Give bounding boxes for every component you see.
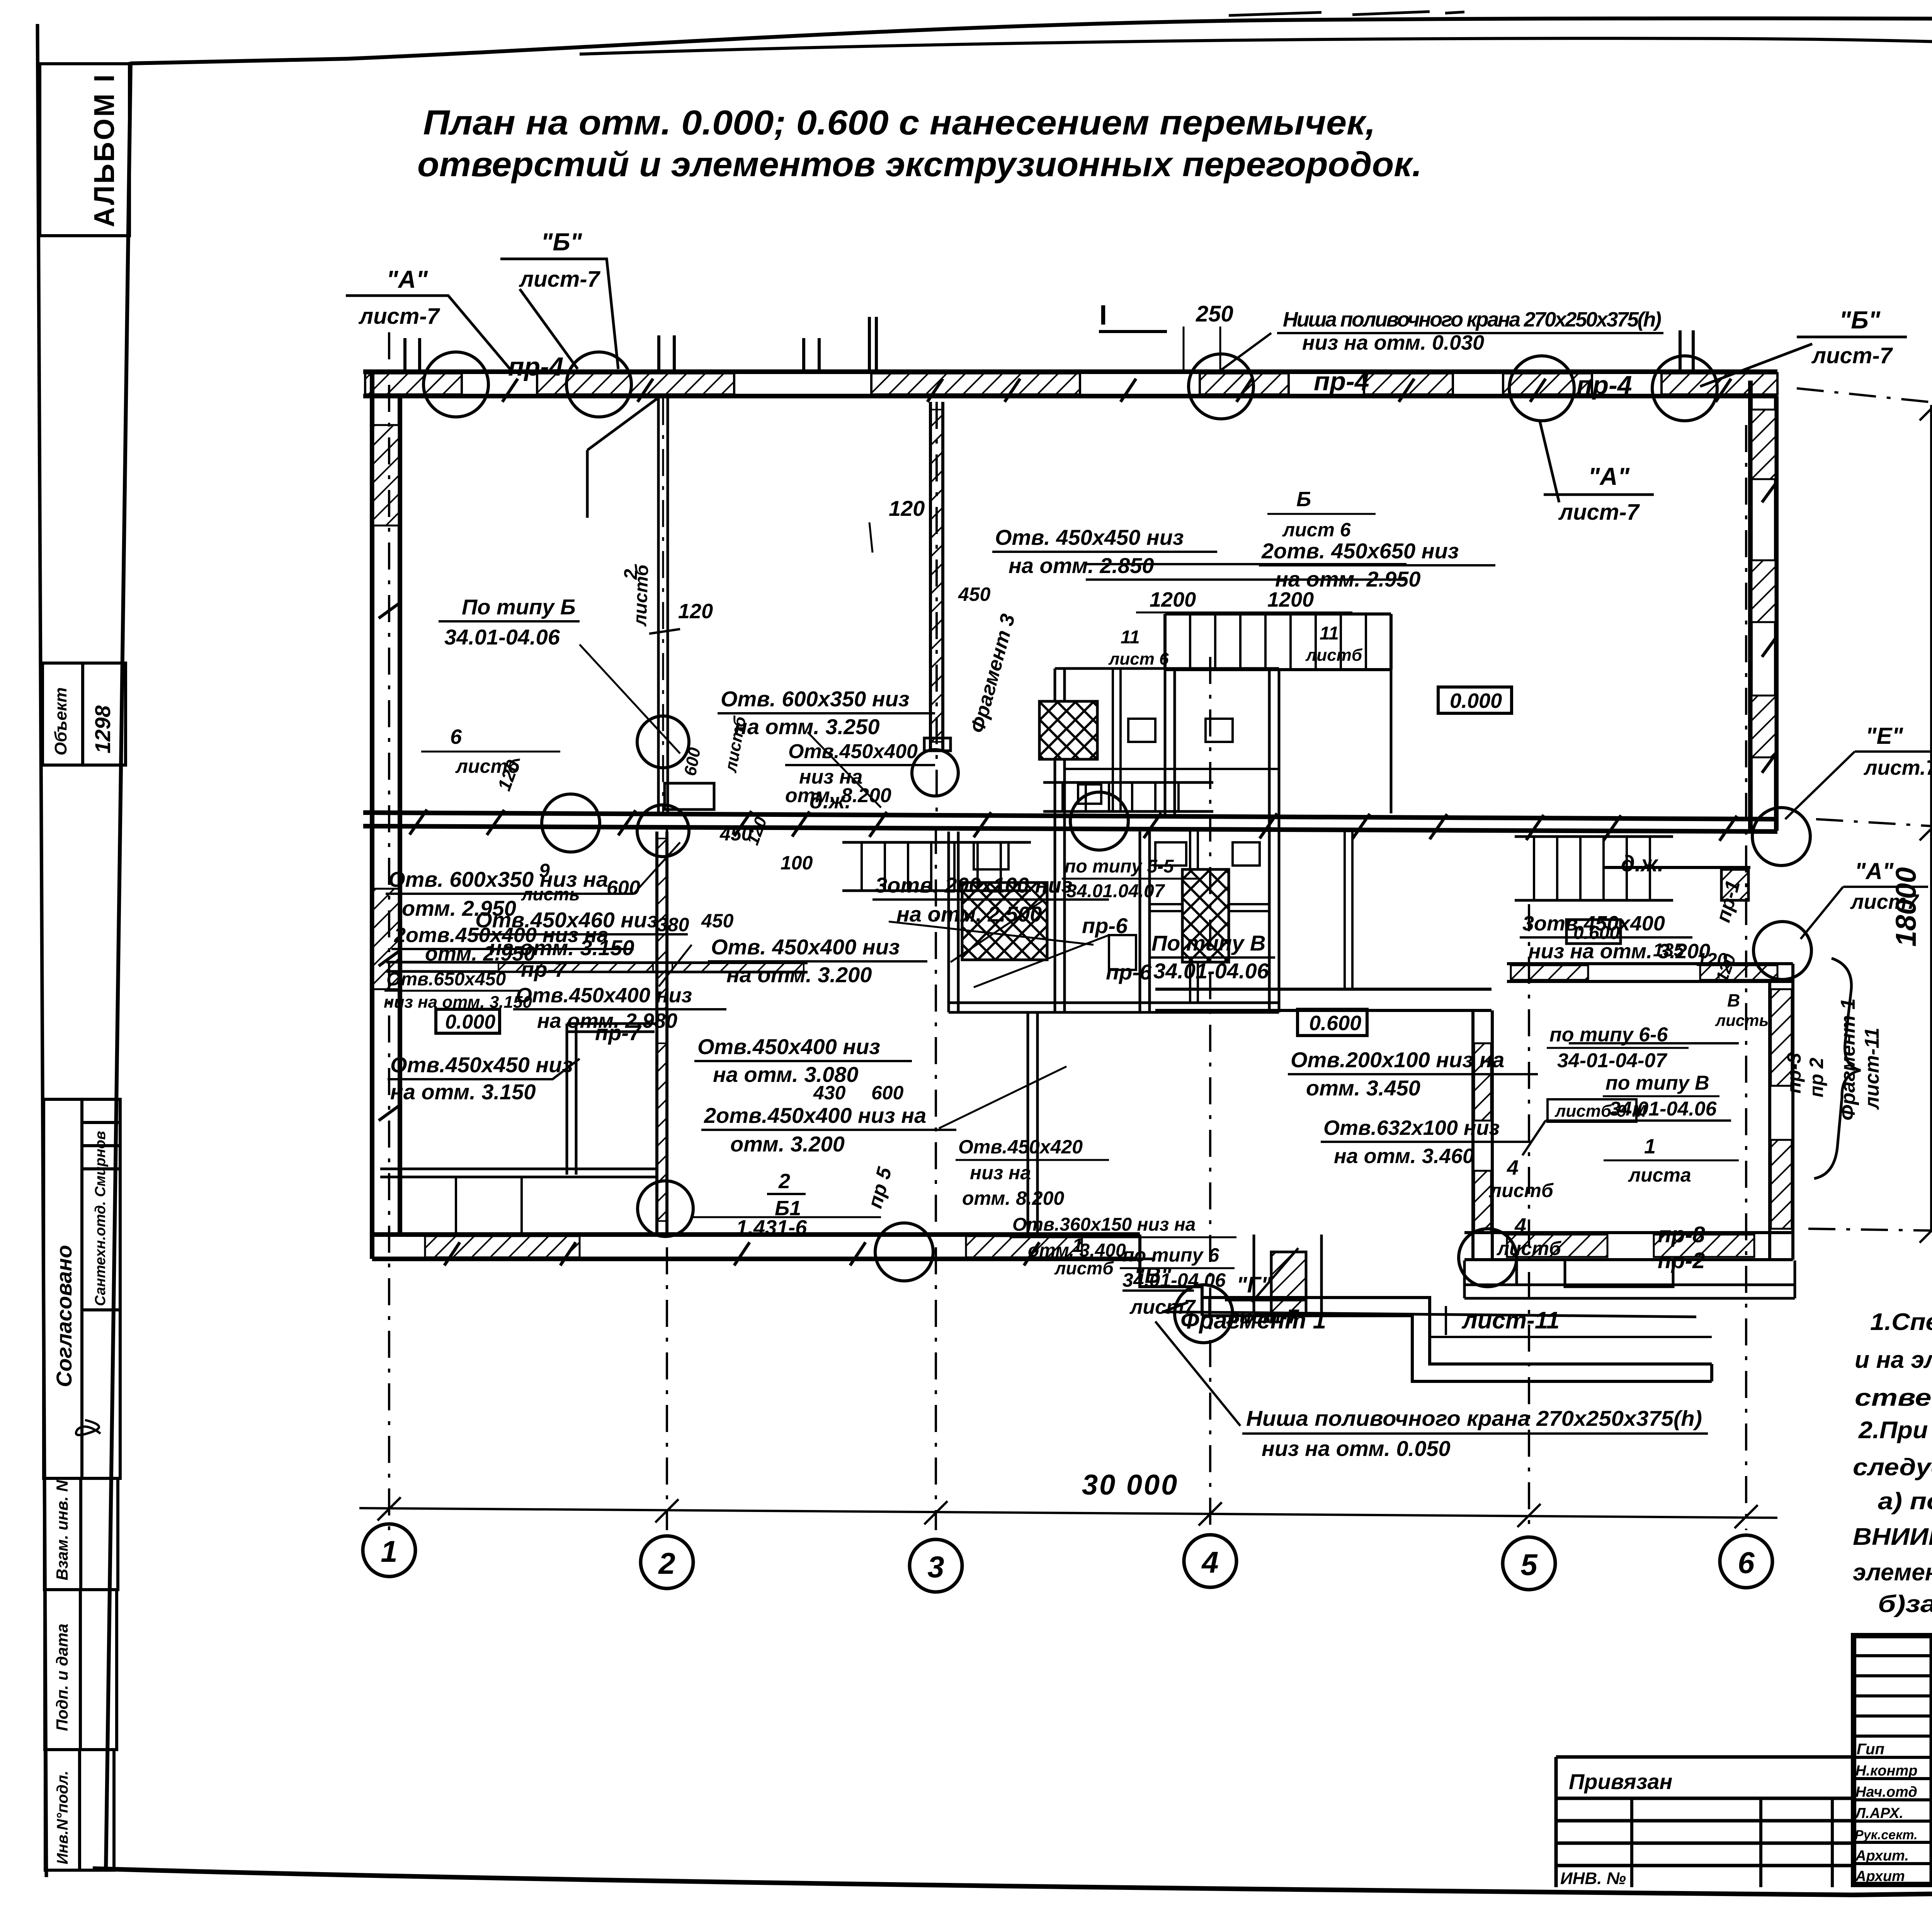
svg-text:листь: листь xyxy=(1715,1011,1769,1029)
svg-text:Отв.450х420: Отв.450х420 xyxy=(958,1136,1083,1158)
svg-text:отм. 8.200: отм. 8.200 xyxy=(962,1187,1064,1209)
svg-text:листа: листа xyxy=(1628,1164,1691,1186)
svg-text:4: 4 xyxy=(1507,1156,1519,1179)
svg-text:листб-9-М: листб-9-М xyxy=(1554,1102,1647,1121)
album box xyxy=(40,64,129,236)
svg-text:листб: листб xyxy=(1305,646,1363,665)
svg-text:пр-4: пр-4 xyxy=(508,352,564,381)
leaders cluster center xyxy=(889,900,1109,1128)
svg-text:Ниша поливочного крана 270х250: Ниша поливочного крана 270х250х375(h) xyxy=(1246,1406,1702,1430)
svg-text:Н.контр: Н.контр xyxy=(1855,1763,1917,1779)
svg-text:низ на: низ на xyxy=(970,1162,1031,1184)
svg-text:"А": "А" xyxy=(1588,463,1630,490)
gutter box at wall2 junction xyxy=(665,783,714,810)
svg-text:лист 6: лист 6 xyxy=(1282,519,1351,541)
svg-text:лист-7: лист-7 xyxy=(519,267,601,292)
svg-text:пр-4: пр-4 xyxy=(1577,371,1632,400)
crosshatch boxes xyxy=(1039,701,1097,759)
svg-text:11: 11 xyxy=(1121,627,1140,648)
hall east wall foot xyxy=(924,738,951,751)
main stamp outline xyxy=(1854,1636,1932,1884)
svg-text:1200: 1200 xyxy=(1150,588,1196,611)
svg-text:Отв.450х400 низ: Отв.450х400 низ xyxy=(516,984,692,1007)
svg-text:по типу 6-6: по типу 6-6 xyxy=(1549,1024,1668,1046)
svg-text:2.При установке экструзионных: 2.При установке экструзионных перегородо… xyxy=(1858,1417,1932,1444)
svg-text:на отм. 2.950: на отм. 2.950 xyxy=(1275,567,1420,591)
svg-text:450: 450 xyxy=(701,910,734,932)
svg-text:Нач.отд: Нач.отд xyxy=(1855,1784,1917,1800)
small fixtures in sanitary rooms xyxy=(974,842,1009,869)
hash ticks bottom wall xyxy=(379,481,1777,1265)
svg-text:низ на отм. 0.030: низ на отм. 0.030 xyxy=(1302,331,1484,354)
ladder motif right below B (stair in block) xyxy=(1515,837,1673,900)
partition y2350 xyxy=(1150,904,1269,911)
svg-text:Отв. 450х400 низ: Отв. 450х400 низ xyxy=(711,935,900,959)
svg-text:по типу 6: по типу 6 xyxy=(1122,1244,1219,1266)
svg-text:Сантехн.отд. Смирнов: Сантехн.отд. Смирнов xyxy=(92,1131,109,1306)
svg-text:Подп. и дата: Подп. и дата xyxy=(53,1624,71,1731)
corridor wall above block left part xyxy=(1155,989,1492,1010)
svg-text:Б: Б xyxy=(1296,488,1311,511)
svg-text:низ на отм. 0.050: низ на отм. 0.050 xyxy=(1262,1436,1451,1461)
block bottom wall xyxy=(1464,1233,1793,1260)
leaders left xyxy=(580,645,881,986)
svg-text:элементы: элементы xyxy=(1853,1559,1932,1586)
interior of block: door arcs region simple lines xyxy=(1522,1121,1731,1155)
svg-text:ИНВ. №: ИНВ. № xyxy=(1560,1869,1626,1888)
svg-text:100: 100 xyxy=(781,852,813,874)
svg-text:пр-4: пр-4 xyxy=(1314,367,1369,396)
svg-text:листб: листб xyxy=(1497,1238,1562,1259)
partition x3480 vertical xyxy=(1345,832,1352,989)
svg-text:и на элементы экструзионных пе: и на элементы экструзионных перегородок … xyxy=(1855,1347,1932,1373)
svg-text:пр-8: пр-8 xyxy=(1658,1222,1705,1247)
svg-text:Ниша поливочного крана 270х250: Ниша поливочного крана 270х250х375(h) xyxy=(1283,308,1662,331)
svg-text:Отв.360х150 низ на: Отв.360х150 низ на xyxy=(1012,1214,1196,1235)
svg-text:Отв.200х100 низ на: Отв.200х100 низ на xyxy=(1291,1048,1504,1072)
svg-text:лист-11: лист-11 xyxy=(1861,1027,1883,1110)
svg-text:Объект: Объект xyxy=(51,687,70,755)
svg-text:"А": "А" xyxy=(1855,858,1894,884)
svg-text:"А": "А" xyxy=(386,265,428,293)
corridor rails under stairs xyxy=(1086,564,1406,580)
mid sanitary cluster walls xyxy=(949,832,958,1012)
svg-text:Согласовано: Согласовано xyxy=(52,1245,76,1387)
svg-text:34.01-04.06: 34.01-04.06 xyxy=(1122,1269,1226,1291)
svg-text:на отм. 3.460: на отм. 3.460 xyxy=(1334,1145,1474,1168)
inner frame left border xyxy=(106,62,131,1870)
svg-text:600: 600 xyxy=(871,1082,904,1104)
hall east hatched wall xyxy=(930,402,943,751)
svg-text:на отм. 3.250: на отм. 3.250 xyxy=(734,714,879,739)
svg-text:Отв.632х100 низ: Отв.632х100 низ xyxy=(1323,1116,1500,1139)
svg-text:а) покрыть огнезащитным состав: а) покрыть огнезащитным составом ВПМ-2 (… xyxy=(1878,1488,1932,1515)
svg-text:пр-3: пр-3 xyxy=(1783,1053,1805,1094)
svg-text:на отм. 2.500: на отм. 2.500 xyxy=(896,902,1042,926)
svg-text:отм. 3.450: отм. 3.450 xyxy=(1306,1076,1420,1100)
listb-9 small box xyxy=(1548,1099,1636,1122)
svg-text:отм. 3.400: отм. 3.400 xyxy=(1028,1240,1126,1261)
svg-text:135: 135 xyxy=(1653,940,1684,961)
svg-text:отм. 2.950: отм. 2.950 xyxy=(425,942,535,965)
svg-text:0.600: 0.600 xyxy=(1309,1012,1361,1035)
small wall stub below block xyxy=(1565,1260,1673,1287)
bottom border xyxy=(93,1869,1932,1895)
svg-text:лист-7: лист-7 xyxy=(358,304,440,329)
svg-text:1: 1 xyxy=(381,1534,397,1568)
left exterior wall xyxy=(372,372,400,1259)
svg-text:1.Спецификации на закладные эл: 1.Спецификации на закладные элементы в к… xyxy=(1870,1309,1932,1335)
svg-text:Архит.: Архит. xyxy=(1855,1848,1909,1864)
svg-text:30 000: 30 000 xyxy=(1082,1469,1179,1501)
thin partition wall grid2 upper xyxy=(658,398,668,813)
ladder motif left of center below B xyxy=(842,842,1031,891)
svg-text:отверстий и элементов экструзи: отверстий и элементов экструзионных пере… xyxy=(417,145,1422,184)
svg-text:3: 3 xyxy=(927,1550,944,1584)
object box xyxy=(43,663,126,765)
partition x3090 xyxy=(1190,832,1198,1003)
svg-text:3отв.450х400: 3отв.450х400 xyxy=(1522,912,1665,935)
svg-text:1.431-6: 1.431-6 xyxy=(736,1216,807,1239)
svg-text:План на отм. 0.000; 0.600 с на: План на отм. 0.000; 0.600 с нанесением п… xyxy=(423,104,1376,142)
svg-text:По типу Б: По типу Б xyxy=(462,595,576,619)
svg-text:листб: листб xyxy=(1054,1258,1114,1278)
svg-text:1: 1 xyxy=(1644,1135,1656,1158)
svg-text:"Б": "Б" xyxy=(541,228,582,256)
svg-text:лист-11: лист-11 xyxy=(1461,1307,1560,1334)
svg-text:по типу 5-5: по типу 5-5 xyxy=(1065,856,1174,877)
svg-text:1298: 1298 xyxy=(90,705,115,753)
svg-text:Взам. инв. N: Взам. инв. N xyxy=(53,1480,71,1580)
stair side walls down to B wall xyxy=(1165,670,1391,815)
svg-text:лист 6: лист 6 xyxy=(1108,650,1169,668)
hash ticks top wall xyxy=(502,379,1731,402)
svg-text:АЛЬБОМ I: АЛЬБОМ I xyxy=(88,73,120,227)
svg-text:пр-6: пр-6 xyxy=(1082,913,1128,938)
svg-text:2: 2 xyxy=(658,1546,675,1580)
svg-text:на отм. 2.850: на отм. 2.850 xyxy=(1009,553,1154,578)
label rows xyxy=(1854,1757,1932,1864)
top border line upper xyxy=(131,19,1932,63)
stairwell top middle xyxy=(1165,614,1391,670)
vzam box xyxy=(44,1478,118,1590)
svg-text:5: 5 xyxy=(1520,1548,1538,1582)
block left wall xyxy=(1473,1010,1492,1260)
apron strip below block xyxy=(1464,1260,1795,1298)
svg-text:380: 380 xyxy=(657,914,689,935)
svg-text:лист.7: лист.7 xyxy=(1863,756,1932,779)
svg-text:листб: листб xyxy=(1489,1180,1554,1201)
svg-text:Архит: Архит xyxy=(1855,1868,1905,1884)
svg-text:2отв. 450х650 низ: 2отв. 450х650 низ xyxy=(1261,539,1459,563)
room pr-7 top wall xyxy=(567,1024,655,1032)
svg-text:6: 6 xyxy=(1738,1546,1755,1580)
svg-text:на отм. 3.150: на отм. 3.150 xyxy=(390,1080,536,1104)
svg-text:ВНИИПО МВД СССР) стальные соед: ВНИИПО МВД СССР) стальные соединительные xyxy=(1853,1524,1932,1550)
interior wall grid2 lower xyxy=(657,832,667,1235)
svg-text:ственно на листах 7 и 6.: ственно на листах 7 и 6. xyxy=(1855,1384,1932,1411)
svg-text:120: 120 xyxy=(889,496,925,520)
svg-text:120: 120 xyxy=(678,600,713,623)
svg-text:2: 2 xyxy=(778,1170,790,1193)
svg-text:Л.АРХ.: Л.АРХ. xyxy=(1854,1805,1903,1821)
lower-right block top wall right part xyxy=(1507,964,1793,981)
svg-text:Фрагмент 1: Фрагмент 1 xyxy=(1180,1307,1326,1334)
thin top rows xyxy=(1854,1656,1932,1736)
svg-text:Отв.450х450 низ: Отв.450х450 низ xyxy=(390,1053,573,1077)
niche hatched block at bottom xyxy=(1271,1252,1306,1314)
vertical dividers left part xyxy=(1931,1636,1932,1884)
svg-text:пр-7: пр-7 xyxy=(521,957,568,981)
svg-text:"Е": "Е" xyxy=(1866,723,1903,749)
bottom step / pit outline xyxy=(1140,1235,1202,1316)
svg-text:0.000: 0.000 xyxy=(1450,689,1502,713)
svg-text:6: 6 xyxy=(450,725,462,748)
0.600 box a xyxy=(1298,1009,1367,1036)
svg-text:По типу В: По типу В xyxy=(1151,931,1265,955)
privyazan table xyxy=(1556,1757,1854,1887)
0.000 boxed right xyxy=(1438,687,1512,713)
svg-text:450: 450 xyxy=(958,583,991,605)
svg-text:430: 430 xyxy=(813,1082,846,1104)
svg-text:пр-6: пр-6 xyxy=(1106,960,1152,984)
svg-text:б)заделать все стыки битумной: б)заделать все стыки битумной мастикой. xyxy=(1878,1591,1932,1617)
svg-text:Инв.N°подл.: Инв.N°подл. xyxy=(54,1770,71,1864)
svg-text:лист7: лист7 xyxy=(1850,890,1920,913)
signature xyxy=(76,1420,100,1435)
0.000 mark box left xyxy=(436,1009,500,1033)
inv box xyxy=(45,1750,114,1870)
stubs in bottom-left room xyxy=(456,1177,522,1235)
svg-text:лист-7: лист-7 xyxy=(1811,343,1893,368)
svg-text:отм. 3.200: отм. 3.200 xyxy=(730,1132,845,1156)
svg-text:по типу В: по типу В xyxy=(1605,1072,1709,1094)
svg-text:Отв. 600х350 низ: Отв. 600х350 низ xyxy=(721,687,909,711)
svg-text:600: 600 xyxy=(607,877,640,899)
top wall hatch segments xyxy=(365,373,462,395)
svg-text:пр 2: пр 2 xyxy=(1806,1058,1827,1097)
right exterior wall upper xyxy=(1750,381,1776,831)
svg-text:I: I xyxy=(1099,300,1107,331)
podp box xyxy=(45,1590,117,1750)
svg-text:4: 4 xyxy=(1514,1214,1526,1237)
hash ticks row B wall xyxy=(410,810,1737,841)
svg-text:11: 11 xyxy=(1320,623,1339,644)
svg-text:на отм. 3.200: на отм. 3.200 xyxy=(726,963,872,987)
svg-text:34.01-04.06: 34.01-04.06 xyxy=(1153,959,1269,983)
svg-text:250: 250 xyxy=(1196,301,1233,327)
svg-text:пр-2: пр-2 xyxy=(1658,1248,1705,1273)
svg-text:34.01-04.06: 34.01-04.06 xyxy=(444,625,560,649)
paper left edge xyxy=(37,24,46,1877)
top wall outline xyxy=(363,372,1777,396)
top border line lower xyxy=(580,38,1932,83)
svg-text:Отв.650х450: Отв.650х450 xyxy=(386,969,506,990)
svg-text:34-01-04-07: 34-01-04-07 xyxy=(1557,1049,1667,1072)
svg-text:пр-7: пр-7 xyxy=(595,1020,642,1045)
svg-text:Гип: Гип xyxy=(1857,1741,1884,1758)
block right wall xyxy=(1770,964,1793,1260)
small hatched pier at B wall right end xyxy=(1604,867,1750,900)
interior wall y3035 xyxy=(380,1169,657,1177)
svg-text:Отв. 600х350 низ на: Отв. 600х350 низ на xyxy=(388,867,608,891)
horizontal wall y2500 left xyxy=(386,962,808,972)
svg-text:"Б": "Б" xyxy=(1839,306,1881,334)
soglasovano box xyxy=(44,1099,120,1478)
svg-text:В: В xyxy=(1727,990,1740,1010)
svg-text:Отв.450х400 низ: Отв.450х400 низ xyxy=(697,1034,880,1059)
partitions above B in sanitary zone xyxy=(1113,668,1121,811)
svg-text:Привязан: Привязан xyxy=(1569,1769,1672,1794)
bottom wall left part xyxy=(372,1235,1140,1259)
svg-text:д.ж.: д.ж. xyxy=(1621,851,1664,876)
fragment1 bottom arrow xyxy=(1163,1302,1696,1317)
svg-text:д.ж.: д.ж. xyxy=(810,789,851,813)
svg-text:лист-7: лист-7 xyxy=(1558,500,1640,525)
trench double line L-shape xyxy=(1202,1298,1712,1381)
svg-text:следует провести следующие мер: следует провести следующие мероприятия: xyxy=(1853,1454,1932,1481)
svg-text:Отв. 450х450 низ: Отв. 450х450 низ xyxy=(995,525,1184,549)
room pr-7 west wall xyxy=(567,1024,576,1175)
long wall grid3 area down to bottom xyxy=(1028,1012,1037,1235)
svg-text:1200: 1200 xyxy=(1267,588,1314,611)
0.600 box b xyxy=(1566,920,1621,944)
svg-text:2отв.450х400 низ на: 2отв.450х400 низ на xyxy=(704,1103,926,1128)
svg-text:3отв. 200х100 низ: 3отв. 200х100 низ xyxy=(875,873,1072,897)
bay diagonal top-left xyxy=(587,399,657,518)
svg-text:Рук.сект.: Рук.сект. xyxy=(1855,1828,1918,1842)
svg-text:34.01.04.07: 34.01.04.07 xyxy=(1066,881,1165,901)
svg-text:листб: листб xyxy=(630,564,653,627)
row B main interior wall xyxy=(363,813,1777,832)
svg-text:Отв.450х400: Отв.450х400 xyxy=(788,740,918,763)
svg-text:4: 4 xyxy=(1201,1545,1218,1579)
svg-text:0.000: 0.000 xyxy=(445,1011,495,1033)
wall stubs above top wall xyxy=(659,335,819,372)
